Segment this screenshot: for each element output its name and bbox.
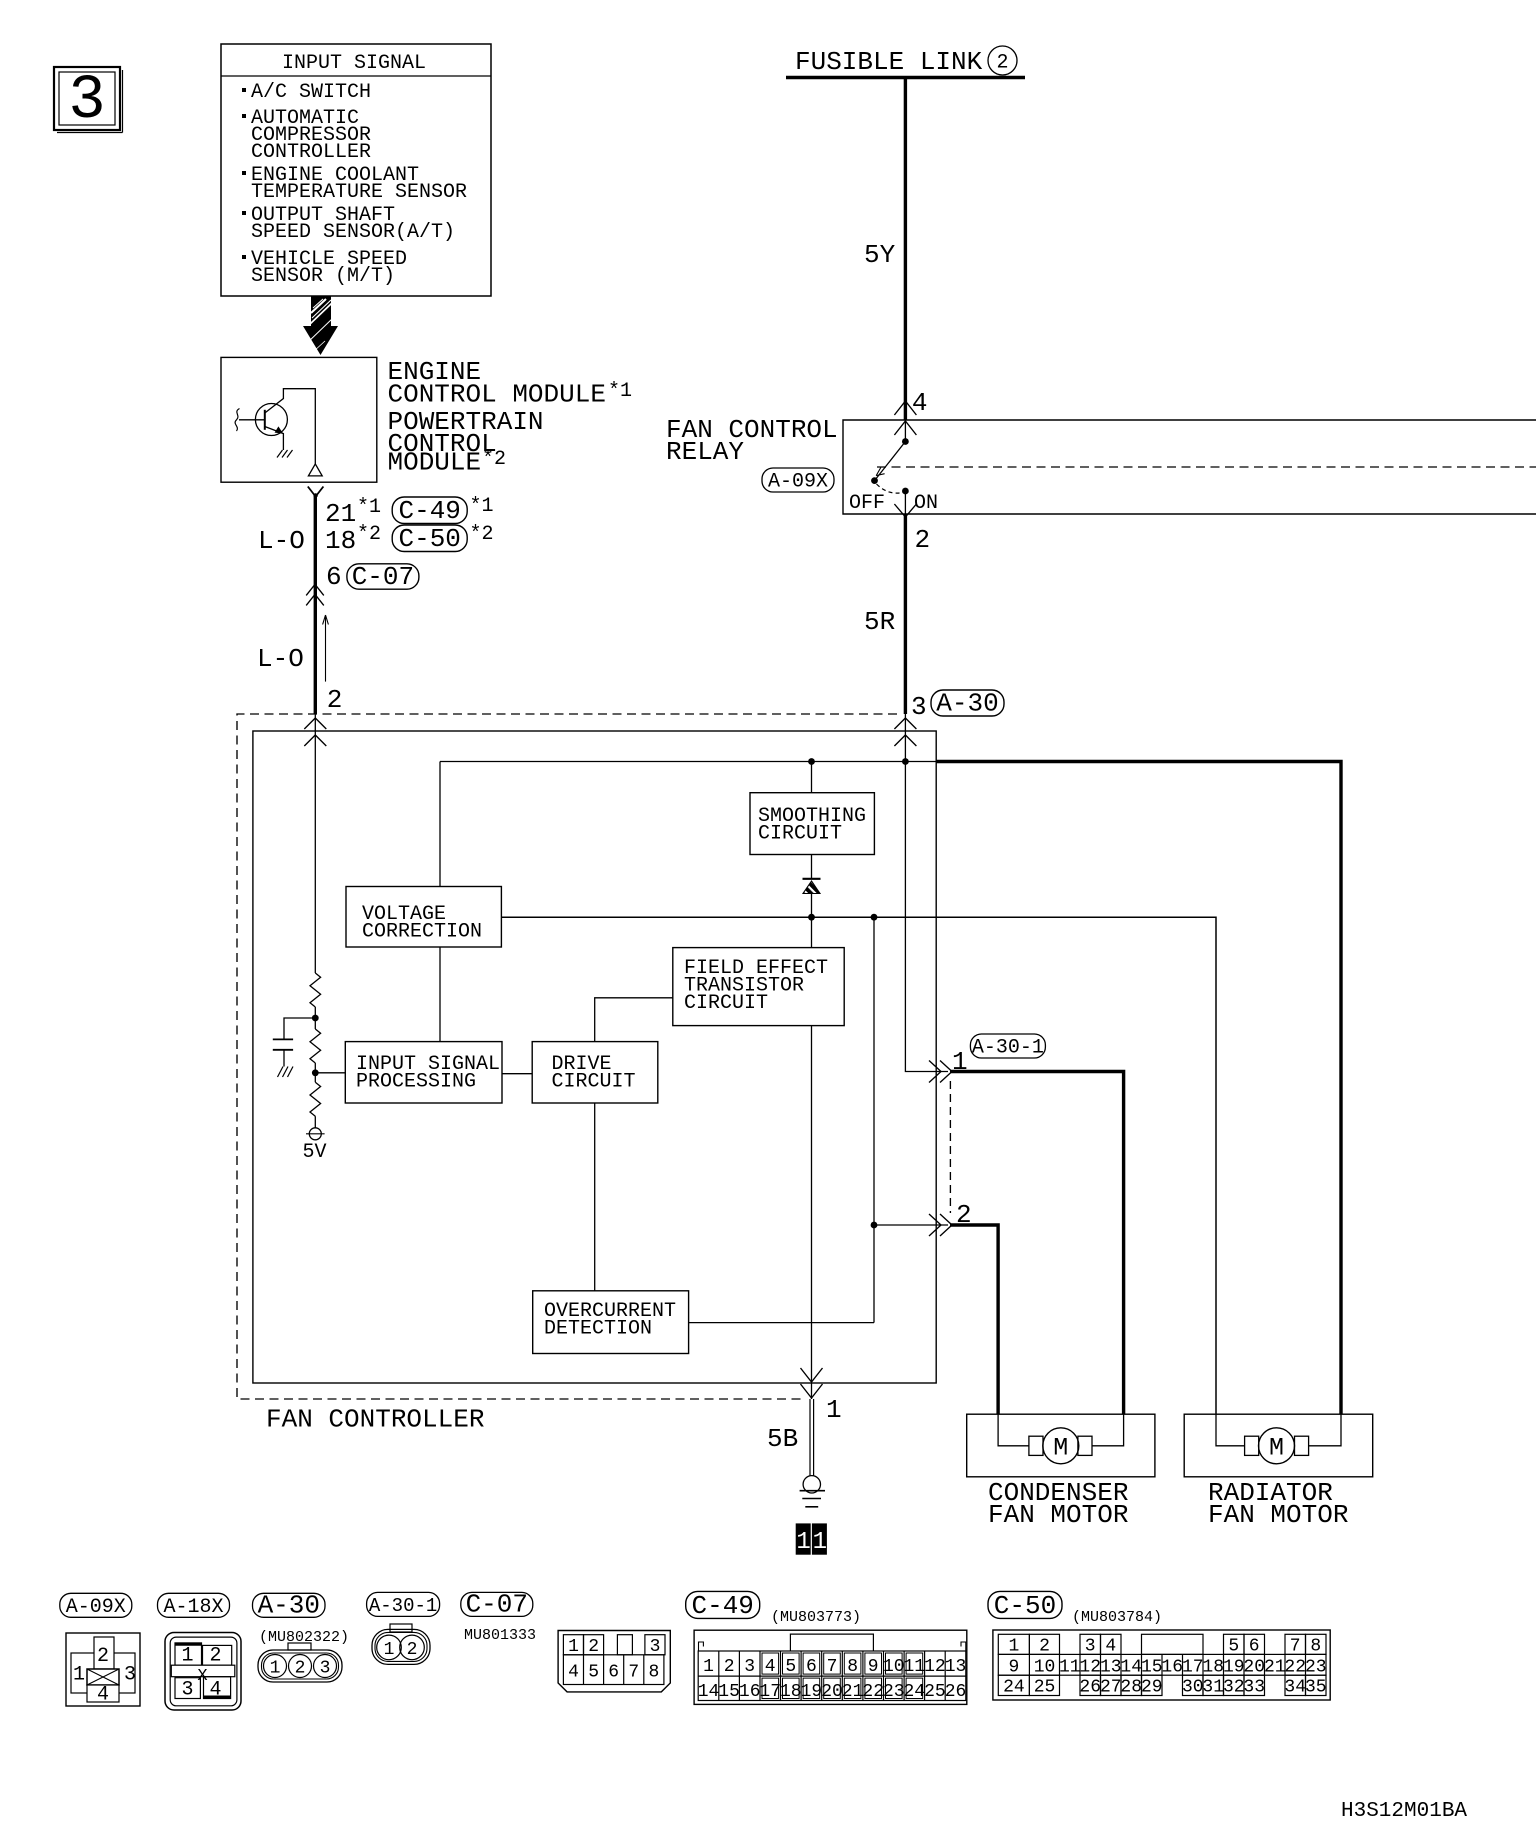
svg-text:3: 3 — [1085, 1637, 1096, 1657]
pin 2 label (A-30-1) — [956, 1200, 972, 1230]
svg-text:21: 21 — [842, 1682, 864, 1702]
pin 6 / C-07 label — [326, 562, 419, 592]
capacitor C1 branch wire — [284, 1018, 315, 1039]
condenser fan motor label — [988, 1478, 1128, 1530]
svg-text:C-50: C-50 — [994, 1591, 1056, 1621]
current direction arrow — [323, 615, 329, 682]
svg-text:FUSIBLE LINK: FUSIBLE LINK — [795, 47, 983, 77]
node: pin3 wire on supply rail — [902, 758, 909, 765]
svg-text:6: 6 — [1249, 1637, 1260, 1657]
svg-text:16: 16 — [1161, 1658, 1183, 1678]
svg-text:11: 11 — [903, 1657, 925, 1677]
svg-text:10: 10 — [1034, 1658, 1056, 1678]
svg-text:8: 8 — [648, 1663, 659, 1683]
svg-text:L-O: L-O — [258, 526, 305, 556]
capacitor C1 — [273, 1039, 293, 1066]
svg-text:2: 2 — [209, 1645, 221, 1668]
transistor Q1 (output driver inside ECM) — [235, 389, 315, 464]
relay connector label A-09X — [762, 468, 834, 494]
svg-text:13: 13 — [1100, 1658, 1122, 1678]
svg-text:1: 1 — [826, 1395, 842, 1425]
svg-text:*2: *2 — [470, 523, 494, 546]
svg-text:27: 27 — [1100, 1678, 1122, 1698]
svg-text:15: 15 — [1141, 1658, 1163, 1678]
pin 1 label (ground output) — [826, 1395, 842, 1425]
svg-text:CORRECTION: CORRECTION — [362, 921, 482, 944]
svg-text:18: 18 — [325, 526, 356, 556]
svg-text:*2: *2 — [482, 448, 506, 471]
resistor R1 — [310, 973, 321, 1018]
node: sense line junction on correction rail — [871, 914, 878, 921]
svg-text:1: 1 — [1008, 1637, 1019, 1657]
svg-text:19: 19 — [1223, 1658, 1245, 1678]
wire 5B to ground — [767, 1399, 814, 1476]
svg-text:5: 5 — [1228, 1637, 1239, 1657]
wire from pin 2 to resistor chain — [314, 714, 316, 973]
connector A-30-1 pinout — [372, 1624, 430, 1664]
svg-text:2: 2 — [295, 1659, 306, 1679]
wire branch to pin 2 feed — [871, 1222, 948, 1229]
connector C-07 label — [461, 1590, 536, 1645]
svg-text:7: 7 — [628, 1663, 639, 1683]
relay pin 4 chevrons — [894, 388, 927, 435]
svg-text:22: 22 — [862, 1682, 884, 1702]
wire: junction to FET circuit — [811, 917, 813, 947]
sheet number 3 box — [54, 65, 123, 136]
smoothing circuit box — [750, 793, 874, 855]
svg-text:4: 4 — [209, 1679, 221, 1702]
svg-text:CIRCUIT: CIRCUIT — [552, 1071, 636, 1094]
svg-text:29: 29 — [1141, 1678, 1163, 1698]
svg-text:28: 28 — [1120, 1678, 1142, 1698]
ground (capacitor) — [278, 1067, 294, 1078]
svg-text:C-49: C-49 — [398, 496, 460, 526]
svg-text:PROCESSING: PROCESSING — [356, 1071, 476, 1094]
svg-text:1: 1 — [270, 1659, 281, 1679]
thick wire pin 1 to condenser fan motor — [950, 1072, 1124, 1415]
svg-text:A-30-1: A-30-1 — [972, 1037, 1044, 1060]
svg-text:1: 1 — [813, 1529, 827, 1556]
svg-text:A/C SWITCH: A/C SWITCH — [251, 81, 371, 104]
svg-text:24: 24 — [903, 1682, 925, 1702]
connector C-07 pinout — [558, 1631, 670, 1692]
svg-text:*1: *1 — [608, 380, 632, 403]
wire: overcurrent detection sense line — [689, 917, 874, 1322]
svg-text:3: 3 — [68, 65, 105, 136]
svg-text:2: 2 — [996, 52, 1008, 75]
svg-text:2: 2 — [724, 1657, 735, 1677]
svg-text:8: 8 — [847, 1657, 858, 1677]
svg-text:(MU803784): (MU803784) — [1072, 1609, 1162, 1626]
thick wire supply rail to radiator fan motor — [936, 762, 1341, 1415]
svg-text:15: 15 — [718, 1682, 740, 1702]
svg-text:1: 1 — [703, 1657, 714, 1677]
svg-text:*1: *1 — [357, 496, 381, 519]
svg-text:A-30: A-30 — [258, 1591, 320, 1621]
fan controller inner circuit box — [253, 731, 936, 1383]
svg-text:12: 12 — [1079, 1658, 1101, 1678]
svg-text:1: 1 — [384, 1640, 395, 1660]
svg-text:16: 16 — [739, 1682, 761, 1702]
FAN CONTROL RELAY box — [666, 415, 1536, 514]
svg-text:22: 22 — [1284, 1658, 1306, 1678]
pin 18 / C-50 label — [325, 523, 494, 556]
svg-text:6: 6 — [608, 1663, 619, 1683]
svg-text:FAN MOTOR: FAN MOTOR — [988, 1500, 1128, 1530]
ground terminal — [800, 1476, 825, 1507]
svg-text:C-49: C-49 — [691, 1591, 753, 1621]
svg-text:2: 2 — [1039, 1637, 1050, 1657]
svg-text:10: 10 — [883, 1657, 905, 1677]
svg-text:23: 23 — [883, 1682, 905, 1702]
wire: voltage correction to input signal processing — [439, 947, 441, 1042]
wire: input signal processing to drive circuit — [502, 1073, 532, 1075]
svg-text:25: 25 — [1034, 1678, 1056, 1698]
diode D1 — [803, 879, 821, 917]
svg-text:33: 33 — [1243, 1678, 1265, 1698]
svg-text:32: 32 — [1223, 1678, 1245, 1698]
svg-text:MU801333: MU801333 — [464, 1627, 536, 1644]
svg-text:4: 4 — [912, 388, 928, 418]
svg-text:5: 5 — [588, 1663, 599, 1683]
node: R1/R2/capacitor junction — [312, 1015, 319, 1022]
FUSIBLE LINK 2 supply — [786, 46, 1025, 78]
svg-text:24: 24 — [1003, 1678, 1025, 1698]
svg-text:RELAY: RELAY — [666, 437, 744, 467]
wire label L-O (lower) — [257, 644, 304, 674]
pin 2 label (fan controller input) — [327, 685, 343, 715]
svg-text:2: 2 — [327, 685, 343, 715]
motor M1 (condenser fan) — [1029, 1428, 1092, 1464]
svg-text:35: 35 — [1305, 1678, 1327, 1698]
svg-text:SENSOR (M/T): SENSOR (M/T) — [251, 265, 395, 288]
svg-text:A-30-1: A-30-1 — [369, 1595, 437, 1617]
output node triangle inside ECM — [308, 464, 322, 476]
connector C-49 pinout — [694, 1630, 967, 1704]
input signal legend box — [221, 44, 491, 296]
svg-text:7: 7 — [1290, 1637, 1301, 1657]
connector C-50 pinout — [993, 1630, 1330, 1700]
svg-text:3: 3 — [181, 1679, 193, 1702]
svg-text:*2: *2 — [357, 523, 381, 546]
overcurrent detection box — [533, 1291, 689, 1354]
svg-text:FAN MOTOR: FAN MOTOR — [1208, 1500, 1348, 1530]
svg-text:14: 14 — [698, 1682, 720, 1702]
wire 5R from relay to fan controller — [864, 514, 905, 714]
svg-text:3: 3 — [744, 1657, 755, 1677]
correction rail wire y=917 — [501, 917, 1216, 1414]
svg-text:23: 23 — [1305, 1658, 1327, 1678]
svg-text:6: 6 — [326, 562, 342, 592]
svg-text:1: 1 — [796, 1529, 810, 1556]
svg-text:17: 17 — [759, 1682, 781, 1702]
motor M2 (radiator fan) — [1245, 1428, 1309, 1464]
radiator fan motor label — [1208, 1478, 1348, 1530]
pin 1 label / connector A-30-1 — [952, 1034, 1045, 1077]
wire from pin 3 down to pin 1 feed — [905, 714, 948, 1072]
svg-text:OFF: OFF — [849, 492, 885, 515]
connector A-30 label — [253, 1591, 350, 1647]
svg-text:5B: 5B — [767, 1424, 798, 1454]
svg-text:ON: ON — [914, 492, 938, 515]
connector C-07 junction chevrons — [306, 584, 324, 605]
svg-text:2: 2 — [407, 1640, 418, 1660]
supply rail wire y=761 — [440, 761, 936, 763]
wire from ECM output (L-O) — [308, 487, 324, 715]
svg-text:21: 21 — [325, 499, 356, 529]
wire: supply rail to smoothing circuit — [811, 762, 813, 793]
svg-text:A-18X: A-18X — [163, 1596, 223, 1619]
wire: supply to voltage correction — [439, 762, 441, 887]
svg-text:CIRCUIT: CIRCUIT — [758, 823, 842, 846]
svg-text:21: 21 — [1264, 1658, 1286, 1678]
connector A-09X pinout — [66, 1633, 140, 1707]
resistor R3 — [310, 1073, 321, 1128]
svg-text:25: 25 — [924, 1682, 946, 1702]
svg-text:C-07: C-07 — [466, 1590, 528, 1620]
svg-text:5Y: 5Y — [864, 240, 896, 270]
svg-text:17: 17 — [1182, 1658, 1204, 1678]
svg-text:3: 3 — [124, 1664, 136, 1687]
relay switch contacts — [849, 420, 938, 515]
pin 1 exit chevrons (bottom) — [801, 1368, 823, 1398]
svg-text:30: 30 — [1182, 1678, 1204, 1698]
svg-text:3: 3 — [911, 692, 927, 722]
svg-text:3: 3 — [650, 1637, 661, 1657]
svg-text:2: 2 — [588, 1637, 599, 1657]
svg-text:*1: *1 — [470, 495, 494, 518]
wire: drive circuit to FET circuit — [595, 998, 673, 1042]
svg-text:M: M — [1053, 1434, 1068, 1463]
svg-text:CIRCUIT: CIRCUIT — [684, 992, 768, 1015]
node: R2/R3/input-signal junction — [312, 1069, 345, 1076]
condenser fan motor box — [967, 1414, 1155, 1477]
svg-text:TEMPERATURE SENSOR: TEMPERATURE SENSOR — [251, 181, 467, 204]
wire: smoothing circuit to diode — [811, 855, 813, 879]
node: diode / correction rail junction — [808, 914, 815, 921]
svg-text:3: 3 — [320, 1659, 331, 1679]
pin 2 chevrons (A-30-1) — [929, 1214, 952, 1236]
svg-text:CONTROL MODULE: CONTROL MODULE — [388, 380, 606, 410]
svg-text:9: 9 — [868, 1657, 879, 1677]
pin 3 entry chevrons — [894, 718, 916, 746]
svg-text:4: 4 — [568, 1663, 579, 1683]
relay pin 2 chevron — [894, 504, 930, 555]
svg-text:1: 1 — [73, 1664, 85, 1687]
svg-text:A-09X: A-09X — [66, 1596, 126, 1619]
fan controller dashed outline — [237, 714, 897, 1435]
svg-text:M: M — [1269, 1434, 1284, 1463]
drawing number — [1341, 1800, 1467, 1823]
input signal processing box — [345, 1042, 502, 1103]
svg-text:8: 8 — [1310, 1637, 1321, 1657]
connector A-18X pinout — [165, 1633, 241, 1711]
ground reference tag 11 — [796, 1523, 827, 1556]
connector A-30-1 dashed boundary — [949, 1081, 951, 1213]
svg-text:31: 31 — [1202, 1678, 1224, 1698]
connector A-30 pinout — [258, 1643, 342, 1682]
svg-text:5V: 5V — [302, 1141, 326, 1164]
svg-text:14: 14 — [1120, 1658, 1142, 1678]
svg-text:20: 20 — [821, 1682, 843, 1702]
wire: drive circuit to overcurrent detection — [594, 1103, 596, 1291]
svg-text:L-O: L-O — [257, 644, 304, 674]
svg-text:SPEED SENSOR(A/T): SPEED SENSOR(A/T) — [251, 221, 455, 244]
connector A-18X label — [158, 1593, 230, 1619]
svg-text:11: 11 — [1059, 1658, 1081, 1678]
pin 1 chevrons (A-30-1) — [929, 1061, 952, 1083]
svg-text:C-07: C-07 — [352, 562, 414, 592]
svg-text:A-09X: A-09X — [768, 471, 828, 494]
thick wire pin 2 to condenser fan motor — [950, 1225, 998, 1414]
svg-text:(MU803773): (MU803773) — [771, 1609, 861, 1626]
svg-text:26: 26 — [945, 1682, 967, 1702]
svg-text:26: 26 — [1079, 1678, 1101, 1698]
svg-text:2: 2 — [915, 525, 931, 555]
svg-text:19: 19 — [801, 1682, 823, 1702]
svg-text:5: 5 — [785, 1657, 796, 1677]
svg-text:DETECTION: DETECTION — [544, 1318, 652, 1341]
svg-text:34: 34 — [1284, 1678, 1306, 1698]
hatched flow arrow — [303, 296, 338, 355]
svg-text:18: 18 — [780, 1682, 802, 1702]
connector A-09X label — [60, 1593, 132, 1619]
svg-text:6: 6 — [806, 1657, 817, 1677]
ECM / PCM labels — [388, 357, 633, 478]
field effect transistor circuit box — [673, 948, 844, 1026]
svg-text:CONTROLLER: CONTROLLER — [251, 141, 371, 164]
svg-text:FAN CONTROLLER: FAN CONTROLLER — [266, 1405, 484, 1435]
drive circuit box — [532, 1042, 658, 1103]
svg-text:1: 1 — [181, 1645, 193, 1668]
svg-text:C-50: C-50 — [398, 524, 460, 554]
connector C-50 label — [988, 1591, 1162, 1626]
svg-text:18: 18 — [1202, 1658, 1224, 1678]
resistor R2 — [310, 1018, 321, 1073]
svg-text:4: 4 — [1105, 1637, 1116, 1657]
svg-text:9: 9 — [1008, 1658, 1019, 1678]
svg-text:2: 2 — [97, 1645, 109, 1668]
svg-text:7: 7 — [827, 1657, 838, 1677]
svg-text:12: 12 — [924, 1657, 946, 1677]
ground (ECM transistor emitter) — [277, 450, 293, 458]
voltage correction box — [346, 887, 501, 948]
node: smoothing branch on supply rail — [808, 758, 815, 765]
svg-text:13: 13 — [945, 1657, 967, 1677]
radiator fan motor box — [1184, 1414, 1373, 1477]
svg-text:H3S12M01BA: H3S12M01BA — [1341, 1800, 1467, 1823]
pin 2 entry chevrons — [304, 718, 326, 746]
wire 5Y from fusible link to relay — [864, 78, 905, 421]
wire: FET circuit to ground pin 1 — [811, 1026, 813, 1399]
pin 3 label / connector A-30 — [911, 689, 1004, 723]
pin 21 / C-49 label — [325, 495, 494, 529]
ECM/PCM module box — [221, 357, 377, 482]
svg-text:4: 4 — [765, 1657, 776, 1677]
svg-text:4: 4 — [97, 1684, 109, 1707]
svg-text:5R: 5R — [864, 607, 895, 637]
connector C-49 label — [686, 1591, 861, 1626]
5V reference source — [302, 1128, 326, 1164]
svg-text:A-30: A-30 — [936, 689, 998, 719]
svg-text:INPUT SIGNAL: INPUT SIGNAL — [282, 52, 426, 75]
svg-text:MODULE: MODULE — [388, 448, 482, 478]
connector A-30-1 label — [367, 1592, 440, 1616]
wire label L-O — [258, 526, 305, 556]
svg-text:20: 20 — [1243, 1658, 1265, 1678]
svg-text:1: 1 — [568, 1637, 579, 1657]
